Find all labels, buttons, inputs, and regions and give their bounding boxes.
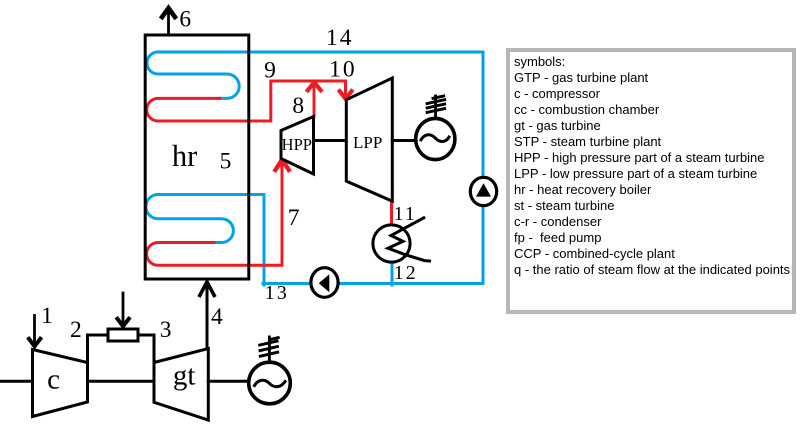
wire: blue riser into boiler bottom coil (line 13 corner up to economizer inlet) bbox=[146, 195, 264, 286]
svg-text:4: 4 bbox=[211, 304, 223, 330]
steam turbine LPP (trapezoid) bbox=[346, 78, 392, 201]
feed pump fp on right downcomer (circle with up triangle) bbox=[470, 177, 496, 205]
legend box with symbol explanations bbox=[506, 48, 796, 314]
svg-text:hr: hr bbox=[172, 139, 197, 173]
condenser c-r (circle with cooling coil) bbox=[373, 225, 410, 262]
svg-text:LPP: LPP bbox=[353, 133, 382, 152]
wire: exhaust line 4 from gt to boiler with chevron arrow bbox=[206, 282, 209, 349]
svg-text:c: c bbox=[47, 364, 60, 396]
svg-text:11: 11 bbox=[394, 203, 417, 225]
svg-text:1: 1 bbox=[41, 303, 53, 329]
generator of gas turbine plant bbox=[249, 362, 291, 404]
wire: red steam line from bottom coil, pipe 7 up into HPP bbox=[147, 161, 282, 265]
svg-text:HPP: HPP bbox=[282, 135, 312, 154]
svg-text:13: 13 bbox=[265, 282, 289, 304]
svg-text:14: 14 bbox=[326, 25, 354, 51]
svg-text:8: 8 bbox=[292, 93, 304, 119]
generator of steam turbine plant bbox=[416, 118, 455, 159]
arrow head of line 8 (up) bbox=[308, 82, 321, 90]
svg-text:gt: gt bbox=[173, 359, 196, 391]
shaft between c and gt bbox=[88, 380, 155, 383]
wire: red line 11 from LPP exhaust to condenser bbox=[390, 199, 393, 226]
shaft gt to generator bbox=[208, 380, 248, 383]
steam turbine HPP (trapezoid) bbox=[281, 117, 314, 175]
shaft HPP to LPP bbox=[314, 139, 347, 142]
svg-text:12: 12 bbox=[394, 262, 418, 284]
grid connection symbol above gas generator bbox=[260, 337, 279, 362]
wire: blue part of top boiler coil (from line 14 into boiler) bbox=[147, 52, 239, 98]
svg-text:6: 6 bbox=[179, 7, 191, 33]
fuel arrow into combustion chamber bbox=[122, 293, 125, 326]
shaft LPP to steam generator bbox=[392, 139, 415, 142]
arrow head of line 10 (down into LPP) bbox=[340, 91, 352, 99]
feed pump fp on bottom line (circle with left triangle) bbox=[311, 268, 338, 298]
svg-text:5: 5 bbox=[220, 148, 232, 174]
wire: line 3 combustion chamber to gas turbine bbox=[138, 335, 154, 363]
wire: line 2 compressor to combustion chamber bbox=[88, 335, 109, 363]
svg-text:10: 10 bbox=[329, 57, 357, 83]
wire: red steam line from top coil, pipe 9 and 10 into LPP bbox=[147, 81, 346, 121]
svg-text:7: 7 bbox=[288, 205, 300, 231]
air inlet arrow 1 bbox=[33, 316, 36, 347]
arrow head of line 7 (up into HPP) bbox=[275, 160, 288, 170]
wire: red line 8 from HPP exhaust up to line 9-10 bbox=[313, 84, 316, 117]
compressor inlet shaft (left) bbox=[0, 380, 33, 383]
stack line 6 with arrow up bbox=[167, 9, 170, 35]
gas turbine gt (trapezoid) bbox=[154, 349, 208, 420]
svg-text:3: 3 bbox=[160, 317, 172, 343]
compressor c (trapezoid) bbox=[33, 350, 88, 417]
combustion chamber cc (rectangle) bbox=[108, 329, 138, 341]
wire: blue condensate line 12 from condenser to bottom line bbox=[391, 261, 394, 285]
svg-text:9: 9 bbox=[264, 57, 276, 83]
wire: blue feed-water loop (line 14 top, right downcomer, bottom line) bbox=[157, 52, 483, 284]
svg-text:2: 2 bbox=[70, 317, 82, 343]
heat recovery boiler hr (rectangle) bbox=[145, 35, 249, 279]
grid connection symbol above steam generator bbox=[427, 96, 445, 118]
